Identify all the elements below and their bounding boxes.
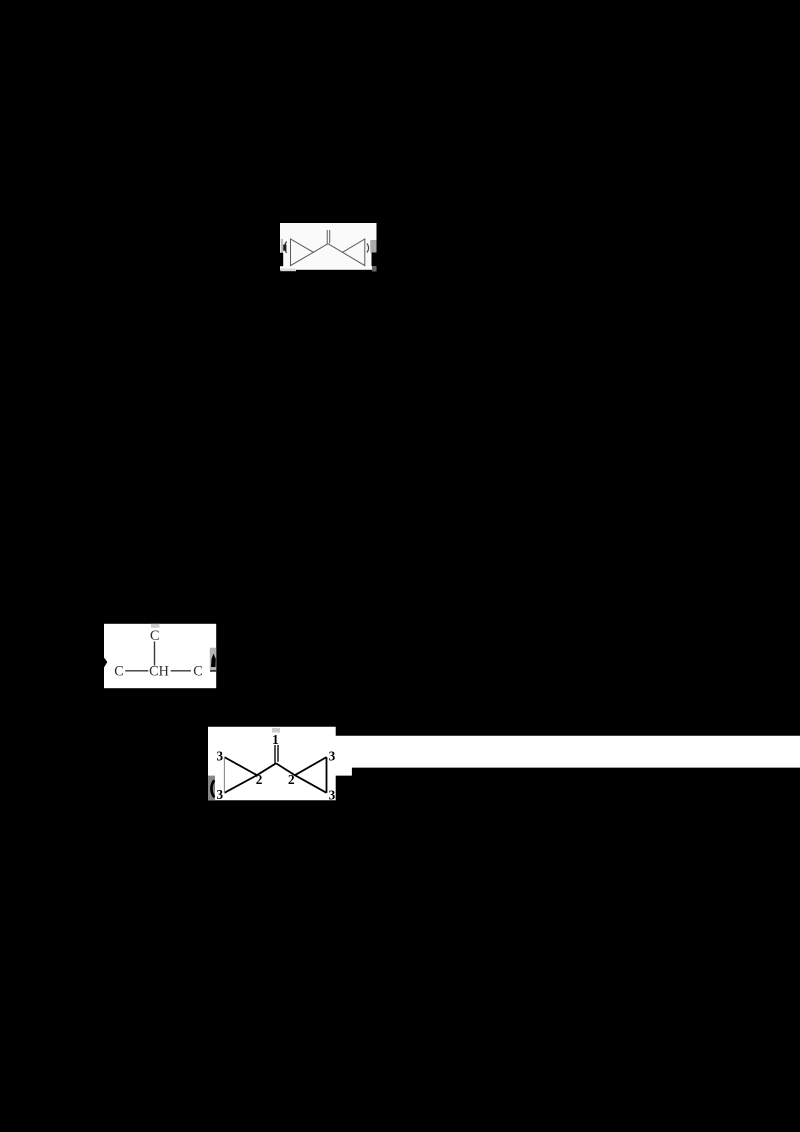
panel 3 left-edge cropped paren — [211, 780, 214, 797]
panel 1 background (white cropped image) — [280, 223, 377, 270]
bond left ring to C1 (structure 1) — [313, 244, 328, 253]
left ring: bond C2 to top C3 (structure 3) — [224, 757, 257, 775]
svg-text:3: 3 — [217, 749, 224, 764]
right ring: bond C2 to bottom C3 (structure 3) — [295, 775, 327, 793]
svg-text:2: 2 — [256, 772, 263, 787]
panel 1 left-edge black jag — [280, 253, 283, 266]
panel 1 right-edge black marks — [372, 253, 377, 267]
right ring: C3-C3 side (structure 3) — [326, 757, 328, 793]
panel 2 right-edge gray patch — [210, 648, 216, 671]
double bond C1=CH2 (structure 3) — [274, 745, 276, 763]
bond C1 to right ring (structure 1) — [328, 244, 343, 253]
svg-text:1: 1 — [272, 732, 279, 747]
bond CH-C right (structure 2) — [171, 670, 191, 672]
bond C-CH left (structure 2) — [125, 670, 148, 672]
svg-text:2: 2 — [288, 772, 295, 787]
svg-text:3: 3 — [329, 787, 336, 802]
vertical bond C-CH (structure 2) — [154, 641, 156, 665]
svg-text:C: C — [114, 664, 123, 680]
panel 3 background (white cropped image with right band) — [208, 727, 800, 801]
bond C1 to right ring carbon (structure 3) — [276, 763, 295, 775]
panel 1 right-edge dark gray patch — [372, 266, 377, 272]
panel 3 top gray notch — [272, 728, 280, 733]
panel 2 top gray notch — [151, 624, 160, 628]
panel 2 right-edge black marks — [211, 654, 216, 668]
double bond C1=CH2 (structure 1) — [326, 230, 328, 244]
panel 1 left-edge light gray sliver — [281, 239, 283, 254]
left ring: bond C2 to bottom C3 (structure 3) — [224, 775, 257, 793]
panel 3 left-edge gray patch — [208, 776, 215, 801]
panel 2 background (white cropped image) — [104, 624, 216, 688]
cyclopropane ring right (structure 1) — [343, 239, 365, 266]
cyclopropane ring left (structure 1) — [291, 239, 314, 266]
panel 1 left-edge cropped glyph mark — [285, 242, 287, 253]
panel 2 right-edge dark strip — [210, 670, 216, 672]
bond C1 to left ring carbon (structure 3) — [257, 763, 276, 775]
panel 1 bottom-left gray strip — [280, 269, 296, 272]
left ring: C3-C3 side (structure 3) — [223, 757, 225, 793]
panel 1 right-edge cropped paren mark — [367, 244, 369, 253]
svg-text:CH: CH — [149, 664, 169, 680]
svg-text:3: 3 — [329, 749, 336, 764]
svg-text:C: C — [193, 664, 202, 680]
panel 1 right-edge light gray patch — [370, 240, 376, 253]
svg-text:3: 3 — [217, 787, 224, 802]
panel 2 left-edge black mark — [104, 658, 107, 668]
right ring: bond C2 to top C3 (structure 3) — [295, 757, 327, 775]
